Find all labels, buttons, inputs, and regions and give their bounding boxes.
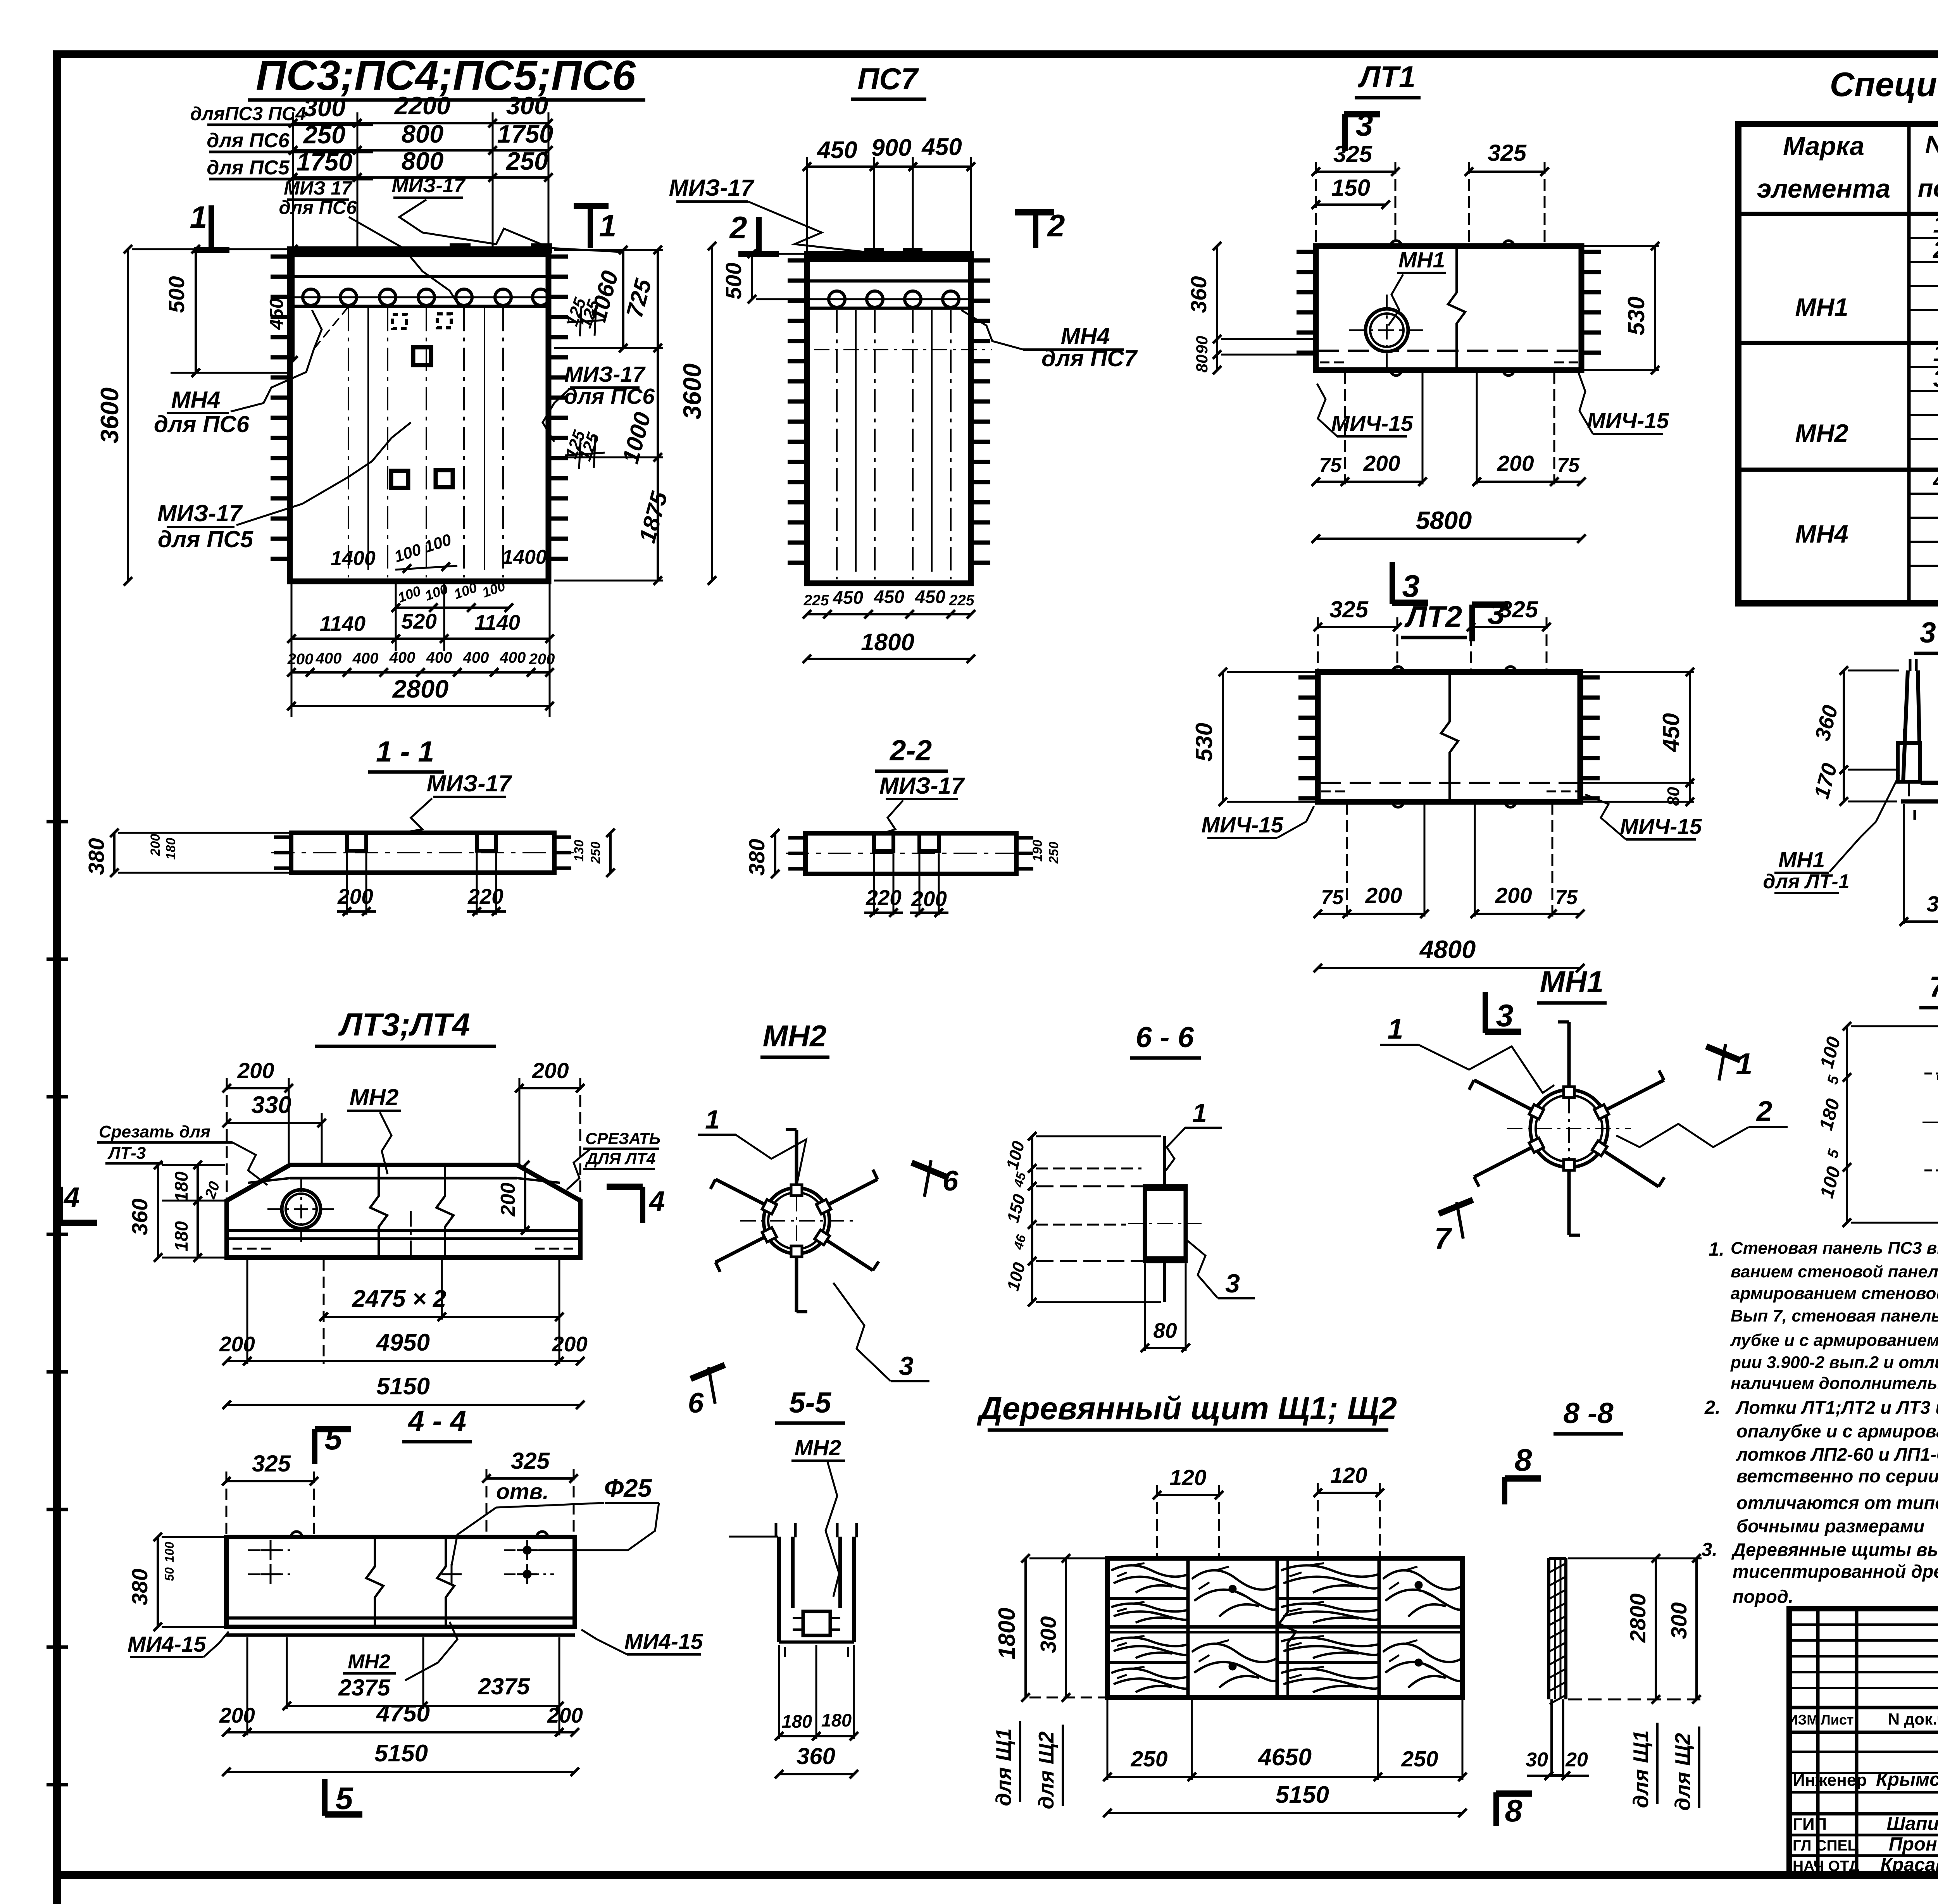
svg-text:1140: 1140 [320, 612, 366, 636]
label MN1 in LT1 [1388, 248, 1446, 326]
svg-text:5800: 5800 [1416, 506, 1472, 534]
svg-text:800: 800 [402, 120, 443, 148]
svg-text:180: 180 [171, 1221, 191, 1251]
svg-text:8: 8 [1505, 1794, 1522, 1828]
svg-text:лотков ЛП2-60 и ЛП1: лотков ЛП2-60 и ЛП1-60 соот- [1736, 1444, 1938, 1465]
svg-text:3: 3 [1355, 108, 1373, 143]
svg-text:200: 200 [497, 1183, 519, 1217]
svg-text:1: 1 [190, 200, 207, 235]
spider MN1 [1469, 1022, 1664, 1235]
dim 2475x2 [319, 1260, 564, 1364]
svg-text:поз: поз [1918, 174, 1938, 202]
svg-text:300: 300 [1036, 1616, 1061, 1653]
leader 1 MN1 [1380, 1013, 1554, 1093]
svg-text:400: 400 [352, 650, 379, 667]
dims 100 45 150 46 100 [1003, 1132, 1161, 1306]
svg-text:3600: 3600 [95, 388, 124, 444]
svg-text:Пронин: Пронин [1889, 1834, 1938, 1855]
title block grid [1789, 1609, 1938, 1875]
svg-text:МН4: МН4 [171, 387, 221, 413]
svg-text:МИЧ-15: МИЧ-15 [1201, 813, 1284, 837]
leader 3 MN2 [833, 1283, 929, 1381]
labels dlya Shch 8-8 [1629, 1723, 1699, 1811]
title LT2 [1401, 600, 1467, 638]
hole circle LT3 [267, 1178, 335, 1242]
section 7-7 column [1922, 1026, 1938, 1225]
hatch left LT2 [1298, 677, 1318, 798]
svg-text:1875: 1875 [634, 488, 673, 546]
svg-text:ЛТ-3: ЛТ-3 [107, 1144, 146, 1163]
left dim 530 LT2 [1191, 668, 1316, 806]
svg-text:380: 380 [128, 1568, 152, 1605]
svg-text:200: 200 [1365, 883, 1402, 908]
svg-text:100: 100 [162, 1542, 176, 1563]
panel PS3 outline [290, 244, 551, 581]
svg-text:330: 330 [251, 1092, 291, 1118]
dims 380 left 2-2 [745, 829, 1061, 878]
svg-text:армированием стеновой панели П: армированием стеновой панели ПБУ2-36-1 п… [1731, 1284, 1938, 1303]
hatch right LT1 [1581, 252, 1601, 353]
svg-text:для Щ2: для Щ2 [1671, 1733, 1695, 1811]
svg-text:1 - 1: 1 - 1 [376, 735, 434, 768]
svg-text:для Щ1: для Щ1 [991, 1728, 1016, 1806]
svg-text:90: 90 [1193, 336, 1211, 354]
label MI4-15 left 4-4 [128, 1632, 229, 1657]
spec table thin rows [1909, 238, 1938, 566]
svg-text:2: 2 [729, 210, 747, 245]
svg-text:МИЧ-15: МИЧ-15 [1331, 411, 1414, 436]
svg-text:130: 130 [572, 840, 586, 862]
svg-text:МИЗ-17: МИЗ-17 [157, 500, 243, 526]
beam 4-4 outline [226, 1532, 575, 1635]
svg-text:дляПС3 ПС4: дляПС3 ПС4 [190, 103, 306, 124]
svg-text:3: 3 [1402, 569, 1419, 604]
svg-text:4750: 4750 [376, 1700, 430, 1727]
svg-text:200: 200 [552, 1332, 588, 1356]
svg-text:МИЗ 17: МИЗ 17 [284, 178, 353, 199]
svg-text:МИЧ-15: МИЧ-15 [1587, 408, 1669, 433]
dims 2800 300 8-8 [1568, 1554, 1702, 1704]
svg-text:325: 325 [252, 1451, 291, 1477]
svg-text:400: 400 [316, 650, 342, 667]
svg-text:4650: 4650 [1257, 1744, 1312, 1771]
svg-text:7: 7 [1434, 1221, 1452, 1255]
svg-text:360: 360 [797, 1743, 835, 1769]
svg-text:1: 1 [1388, 1013, 1403, 1045]
svg-text:2: 2 [1756, 1096, 1772, 1127]
label MIZ 17 dlya PS6 [279, 178, 459, 306]
dim 200 right LT3 [515, 1058, 585, 1201]
lotok LT1 plan outline [1316, 241, 1581, 376]
svg-text:100: 100 [1003, 1139, 1028, 1172]
section marker 3 top LT2 [1472, 596, 1508, 641]
title LT1 [1355, 60, 1421, 98]
left dims 1800 300 shield [994, 1554, 1105, 1702]
svg-text:для ПС6: для ПС6 [564, 384, 655, 409]
svg-text:2: 2 [1047, 208, 1065, 243]
dim 150 LT1 [1312, 175, 1390, 209]
svg-text:2800: 2800 [1626, 1593, 1650, 1643]
svg-text:для Щ2: для Щ2 [1034, 1731, 1058, 1809]
svg-text:200: 200 [1363, 451, 1400, 476]
svg-text:ИЗМ: ИЗМ [1788, 1712, 1818, 1728]
svg-text:МИЗ-17: МИЗ-17 [564, 362, 646, 387]
svg-text:5: 5 [324, 1422, 342, 1456]
svg-text:для Щ1: для Щ1 [1629, 1730, 1653, 1808]
dims 200 330 LT3 [222, 1058, 326, 1201]
title PS7 [851, 62, 926, 99]
svg-text:50: 50 [162, 1567, 176, 1581]
svg-text:250: 250 [588, 842, 603, 864]
svg-text:325: 325 [1329, 596, 1369, 622]
svg-text:МН2: МН2 [763, 1019, 827, 1053]
label MIZ-17 dlya PS5 [157, 422, 411, 552]
dims 325 325 LT1 [1312, 140, 1549, 246]
svg-text:1.: 1. [1709, 1239, 1724, 1260]
dim 1800 [803, 629, 975, 663]
section marker 8 top [1505, 1443, 1541, 1504]
dims 250 4650 250 shield [1103, 1699, 1467, 1781]
svg-text:1: 1 [1933, 340, 1938, 366]
svg-text:1750: 1750 [497, 120, 553, 148]
dims 2375 2375 [283, 1637, 564, 1710]
svg-text:наличием дополнительных заклад: наличием дополнительных закладных детале… [1731, 1374, 1938, 1393]
svg-text:для ЛТ-1: для ЛТ-1 [1763, 870, 1849, 893]
wood grain texture [1111, 1563, 1463, 1692]
note 2 [1704, 1397, 1938, 1536]
svg-text:80: 80 [1193, 355, 1211, 373]
svg-text:75: 75 [1555, 886, 1578, 909]
svg-text:3.: 3. [1702, 1539, 1717, 1560]
svg-text:100: 100 [422, 581, 450, 604]
svg-text:СРЕЗАТЬ: СРЕЗАТЬ [585, 1129, 660, 1148]
svg-text:500: 500 [164, 276, 189, 313]
svg-text:200: 200 [1495, 883, 1532, 908]
svg-text:5150: 5150 [374, 1740, 428, 1767]
row of 7 circles [303, 289, 549, 305]
svg-text:200: 200 [237, 1058, 274, 1083]
svg-text:250: 250 [1130, 1747, 1167, 1771]
axis dashed lines PS7 [837, 310, 951, 579]
svg-text:Инженер: Инженер [1793, 1771, 1867, 1790]
svg-text:6 - 6: 6 - 6 [1136, 1021, 1194, 1053]
label MIZ-17 section 2-2 [879, 773, 965, 834]
svg-text:МН1: МН1 [1398, 248, 1445, 272]
svg-text:бочными размерами: бочными размерами [1736, 1516, 1924, 1536]
inner dim 100 100 [392, 530, 457, 573]
svg-text:2.: 2. [1704, 1397, 1721, 1418]
svg-text:4: 4 [63, 1182, 80, 1213]
dims 75 200 200 75 LT1 [1312, 372, 1586, 486]
spec table headers [1757, 130, 1938, 203]
svg-text:20: 20 [202, 1179, 223, 1201]
svg-text:отв.: отв. [496, 1479, 549, 1504]
svg-text:7- 7: 7- 7 [1929, 970, 1938, 1003]
label MI4-15 right 4-4 [581, 1629, 703, 1654]
right dims 1060 725 1000 1875 [554, 246, 672, 585]
svg-text:для ПС5: для ПС5 [158, 526, 254, 552]
svg-text:5-5: 5-5 [789, 1386, 832, 1419]
svg-text:220: 220 [866, 886, 902, 910]
dims 200 4950 200 [219, 1260, 588, 1365]
hatch right PS7 [971, 260, 990, 563]
left dim 3600 [95, 245, 132, 586]
svg-text:Деревянные щиты выполнять из а: Деревянные щиты выполнять из ан- [1731, 1539, 1938, 1560]
svg-text:2-2: 2-2 [889, 734, 932, 767]
svg-text:1400: 1400 [502, 546, 547, 569]
svg-text:1800: 1800 [994, 1608, 1020, 1659]
svg-text:МН1: МН1 [1778, 848, 1825, 872]
dims 200 220 below [337, 853, 506, 916]
svg-text:Вып 7, стеновая панель ПСЧ, ПС: Вып 7, стеновая панель ПСЧ, ПС5, ПС6 вып… [1731, 1306, 1938, 1325]
svg-text:170: 170 [1809, 760, 1842, 801]
dim 5800 LT1 [1312, 506, 1586, 543]
svg-text:325: 325 [1333, 141, 1373, 167]
svg-text:200: 200 [911, 887, 947, 911]
dimension rows 300-2200-300 [289, 91, 553, 249]
svg-text:НАЧ ОТД: НАЧ ОТД [1793, 1858, 1860, 1875]
svg-text:2375: 2375 [478, 1673, 530, 1699]
svg-text:530: 530 [1191, 723, 1217, 762]
labels 1400 1400 [331, 546, 547, 570]
dims 200 4750 200 [219, 1637, 583, 1737]
section marker 2 right [1015, 208, 1065, 248]
leader 1 6-6 [1166, 1098, 1222, 1170]
section marker 4 left [60, 1182, 97, 1223]
svg-text:МИЧ-15: МИЧ-15 [1620, 814, 1702, 839]
svg-text:4950: 4950 [376, 1329, 430, 1356]
dims 100 5 180 5 100 [1816, 1022, 1938, 1227]
svg-text:6: 6 [943, 1165, 959, 1197]
title LT3;LT4 [315, 1006, 496, 1046]
section marker 1 right [574, 204, 617, 248]
section marker 3 top LT1 [1344, 108, 1380, 151]
svg-text:для ПС7: для ПС7 [1041, 345, 1138, 371]
label MICH-15 right LT2 [1585, 794, 1702, 839]
note 1 [1709, 1239, 1938, 1393]
section 2-2 beam [786, 833, 1036, 874]
spec table title [1830, 65, 1938, 103]
svg-text:225: 225 [948, 592, 974, 609]
svg-text:2800: 2800 [392, 675, 449, 703]
svg-text:МИ4-15: МИ4-15 [128, 1632, 207, 1657]
cross dims 125 125 upper [562, 295, 605, 336]
svg-text:Ф25: Ф25 [604, 1474, 652, 1502]
svg-text:5: 5 [1824, 1147, 1842, 1160]
svg-text:8: 8 [1514, 1443, 1532, 1478]
svg-text:250: 250 [505, 147, 548, 175]
svg-text:МН4: МН4 [1795, 520, 1848, 548]
svg-text:1: 1 [705, 1105, 720, 1134]
svg-text:200: 200 [148, 834, 163, 856]
section marker 5 bottom [325, 1779, 362, 1816]
svg-text:3600: 3600 [678, 364, 706, 420]
svg-text:Стеновая панель ПС3 выполняетс: Стеновая панель ПС3 выполняется в опалуб… [1731, 1239, 1938, 1258]
spider MN2 [710, 1130, 879, 1312]
svg-text:Шапиро: Шапиро [1887, 1813, 1938, 1834]
dims right 130 250 [572, 829, 615, 877]
svg-text:180: 180 [821, 1710, 852, 1730]
label MICH-15 left LT1 [1317, 384, 1414, 436]
label MIZ-17 dlya PS6 right [543, 362, 655, 442]
svg-text:20: 20 [1565, 1749, 1588, 1771]
svg-text:450: 450 [874, 586, 904, 607]
svg-text:400: 400 [426, 649, 452, 666]
dim chain 225-450x3-225 [803, 586, 975, 619]
title MN2 [760, 1019, 829, 1057]
svg-text:250: 250 [303, 121, 345, 149]
svg-text:1: 1 [1933, 212, 1938, 238]
svg-text:МН2: МН2 [1795, 419, 1848, 447]
svg-text:Срезать для: Срезать для [99, 1122, 210, 1141]
svg-text:520: 520 [401, 609, 437, 633]
dim 5150 4-4 [222, 1740, 579, 1776]
dims 180 180 5-5 [775, 1645, 858, 1740]
dim chain 200-400x6-200 [287, 649, 555, 677]
svg-text:рии 3.900-2 вып.2 и отличается: рии 3.900-2 вып.2 и отличается от послед… [1730, 1353, 1938, 1372]
section marker 7a [1434, 1200, 1473, 1255]
svg-text:1400: 1400 [331, 547, 376, 570]
svg-text:МИ4-15: МИ4-15 [624, 1629, 703, 1654]
title MN1 [1537, 965, 1607, 1003]
svg-text:530: 530 [1623, 296, 1649, 335]
svg-text:225: 225 [803, 592, 829, 609]
svg-text:№: № [1925, 130, 1938, 159]
hatch left LT1 [1297, 252, 1316, 353]
left dim 500 [132, 245, 290, 377]
section 6-6 column [1128, 1136, 1202, 1302]
dim chain 1140-520-1140 [287, 581, 554, 717]
svg-text:200: 200 [529, 651, 555, 668]
svg-text:2200: 2200 [394, 91, 451, 120]
svg-text:200: 200 [287, 651, 314, 668]
dim 5150 LT3 [222, 1373, 585, 1409]
svg-text:3: 3 [1496, 998, 1513, 1033]
svg-text:2: 2 [1933, 237, 1938, 263]
title 8-8 [1554, 1397, 1623, 1434]
vertical axis dashed lines [348, 308, 503, 577]
svg-text:1750: 1750 [297, 148, 353, 176]
dim 4800 LT2 [1314, 935, 1585, 972]
svg-text:Лотки ЛТ1;ЛТ2 и ЛТ3 изготовляю: Лотки ЛТ1;ЛТ2 и ЛТ3 изготовляются в [1735, 1397, 1938, 1418]
svg-text:2475 × 2: 2475 × 2 [352, 1285, 446, 1312]
svg-text:180: 180 [171, 1172, 191, 1202]
svg-text:100: 100 [1816, 1164, 1845, 1200]
svg-text:300: 300 [1667, 1602, 1691, 1639]
label MIZ-17 top [391, 174, 620, 252]
svg-text:ГИП: ГИП [1793, 1815, 1827, 1834]
svg-text:120: 120 [1169, 1465, 1206, 1490]
cross dims 125 125 lower [562, 428, 605, 469]
svg-text:для ПС5: для ПС5 [207, 157, 290, 179]
hole crosses 4-4 [248, 1540, 554, 1584]
dims 30 20 8-8 [1526, 1749, 1589, 1780]
label MN2 5-5 [791, 1435, 845, 1597]
title 4-4 [402, 1404, 472, 1442]
section marker 8 bottom [1496, 1792, 1532, 1828]
title PS3;PS4;PS5;PS6 [248, 52, 645, 100]
svg-text:200: 200 [337, 884, 373, 908]
svg-text:МИЗ-17: МИЗ-17 [427, 770, 512, 796]
lotok LT3 side view [227, 1165, 580, 1260]
dim 360 bottom 3-3 [1900, 804, 1938, 926]
section marker 5 top [315, 1422, 351, 1464]
dims 325 325 LT2 [1314, 596, 1551, 672]
dim 200 inner LT3 [497, 1161, 529, 1235]
svg-text:МИЗ-17: МИЗ-17 [879, 773, 965, 799]
svg-text:380: 380 [745, 839, 769, 875]
title 2-2 [875, 734, 948, 771]
dims 360 170 3-3 [1809, 666, 1899, 806]
svg-text:пород.: пород. [1733, 1586, 1793, 1607]
svg-text:360: 360 [128, 1198, 152, 1235]
svg-text:4800: 4800 [1419, 935, 1476, 963]
title block names [1788, 1710, 1938, 1875]
svg-text:Деревянный щит Щ1; Щ2: Деревянный щит Щ1; Щ2 [977, 1390, 1397, 1426]
dim 450 [266, 245, 298, 365]
svg-text:325: 325 [1499, 596, 1539, 622]
title Derevyanny shchit [977, 1390, 1397, 1430]
labels dlya Shch1 Shch2 [991, 1721, 1063, 1809]
svg-text:300: 300 [506, 91, 548, 120]
svg-text:6: 6 [688, 1387, 704, 1419]
svg-text:5: 5 [335, 1781, 353, 1816]
svg-text:МИЗ-17: МИЗ-17 [391, 174, 466, 197]
svg-text:Спецификация металла на одну м: Спецификация металла на одну марку [1830, 65, 1938, 103]
wooden shield outline [1107, 1558, 1462, 1697]
label MICH-15 right LT1 [1578, 372, 1669, 434]
section marker 3 bottom LT1 [1392, 562, 1428, 604]
dim 80 6-6 [1141, 1263, 1190, 1352]
svg-text:220: 220 [467, 884, 503, 908]
label MN4 dlya PS6 [154, 306, 349, 437]
svg-text:4: 4 [1933, 467, 1938, 493]
hatch ticks right edge [548, 257, 568, 559]
svg-text:МН1: МН1 [1795, 293, 1848, 321]
svg-text:ЛТ1: ЛТ1 [1358, 60, 1416, 94]
fold tick marks on left frame [47, 822, 68, 1785]
svg-text:250: 250 [1401, 1747, 1438, 1771]
section marker 2 left [729, 210, 779, 254]
dim 360 5-5 [775, 1743, 858, 1778]
right dim 530 LT1 [1583, 242, 1659, 374]
svg-text:450: 450 [915, 586, 945, 607]
section marker 6a [912, 1160, 959, 1197]
svg-text:опалубке и с армированием типо: опалубке и с армированием типовых [1736, 1421, 1938, 1441]
svg-text:450: 450 [1658, 713, 1684, 752]
leader 1 MN2 [698, 1105, 806, 1186]
right dims 450 80 LT2 [1582, 668, 1694, 806]
left dims 360 90 80 LT1 [1186, 242, 1314, 374]
svg-text:325: 325 [511, 1448, 550, 1474]
dims 450 900 450 [803, 134, 975, 254]
svg-text:ГЛ СПЕЦ: ГЛ СПЕЦ [1793, 1837, 1859, 1854]
svg-text:80: 80 [1664, 787, 1683, 806]
svg-text:200: 200 [219, 1332, 255, 1356]
spec table grid [1738, 124, 1938, 603]
svg-text:4: 4 [648, 1186, 665, 1217]
title 1-1 [368, 735, 444, 772]
svg-text:3: 3 [1225, 1269, 1240, 1298]
spec rows MN4 [1795, 466, 1938, 596]
svg-text:4 - 4: 4 - 4 [407, 1404, 466, 1437]
section marker 4 right [607, 1186, 665, 1223]
note 3 [1702, 1539, 1938, 1607]
hatch ticks left edge [271, 257, 290, 559]
svg-text:180: 180 [1816, 1096, 1844, 1132]
svg-text:100: 100 [395, 583, 422, 606]
dims 325 325 4-4 [222, 1448, 578, 1537]
